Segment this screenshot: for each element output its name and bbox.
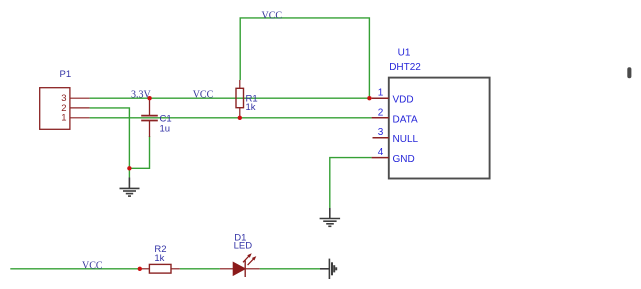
junction dot P1 ground: [127, 166, 131, 170]
wire bottom VCC to R2: [10, 268, 140, 270]
svg-text:4: 4: [378, 147, 384, 158]
wire LED to ground: [260, 268, 320, 270]
ground under P1: [120, 178, 140, 197]
wire P1 pin3 to VCC horizontal rail: [90, 97, 370, 99]
wire C1 bottom to ground junction: [129, 136, 149, 168]
svg-text:2: 2: [378, 107, 384, 118]
svg-text:3.3V: 3.3V: [131, 90, 152, 101]
svg-text:VCC: VCC: [82, 260, 103, 271]
svg-text:1k: 1k: [154, 253, 164, 264]
resistor R1: [236, 80, 258, 118]
ground right of LED (rotated): [320, 259, 329, 279]
wire U1 pin4 to ground: [330, 158, 372, 208]
svg-text:GND: GND: [393, 154, 415, 165]
wire DATA rail P1 pin1 to U1 pin2: [90, 117, 372, 119]
svg-text:3: 3: [378, 127, 384, 138]
IC U1 DHT22: [372, 48, 490, 179]
svg-text:1: 1: [378, 88, 384, 99]
junction dot bottom VCC: [138, 267, 142, 271]
svg-text:1: 1: [61, 113, 66, 124]
capacitor C1: [141, 98, 171, 137]
ground under U1: [320, 208, 341, 226]
svg-text:1k: 1k: [246, 102, 256, 113]
svg-text:LED: LED: [234, 241, 253, 252]
wire top VCC loop R1 to U1 pin1: [240, 18, 369, 98]
led arrow 2: [248, 259, 254, 265]
svg-text:P1: P1: [60, 69, 72, 80]
connector P1: [40, 69, 90, 129]
pin 1 VDD: [372, 97, 389, 99]
wire R2 to LED: [180, 268, 220, 270]
wire P1 pin2 down to ground junction: [90, 108, 130, 178]
svg-text:VCC: VCC: [262, 11, 283, 22]
svg-text:DATA: DATA: [393, 114, 419, 125]
junction dot 3.3V: [147, 96, 151, 100]
led arrow 1: [243, 256, 249, 262]
junction dot U1 pin1: [367, 96, 371, 100]
resistor R2: [140, 244, 180, 273]
svg-text:VDD: VDD: [393, 95, 414, 106]
svg-text:1u: 1u: [160, 123, 171, 134]
svg-text:VCC: VCC: [193, 90, 214, 101]
svg-text:DHT22: DHT22: [389, 62, 421, 73]
scrollbar blob right edge: [627, 67, 631, 78]
svg-text:U1: U1: [398, 48, 411, 59]
pin 3 NULL: [373, 137, 389, 139]
junction dot R1 bottom: [238, 116, 242, 120]
pin 2 DATA: [372, 117, 389, 119]
LED D1: [220, 233, 260, 278]
svg-text:NULL: NULL: [393, 134, 419, 145]
pin 4 GND: [372, 157, 389, 159]
